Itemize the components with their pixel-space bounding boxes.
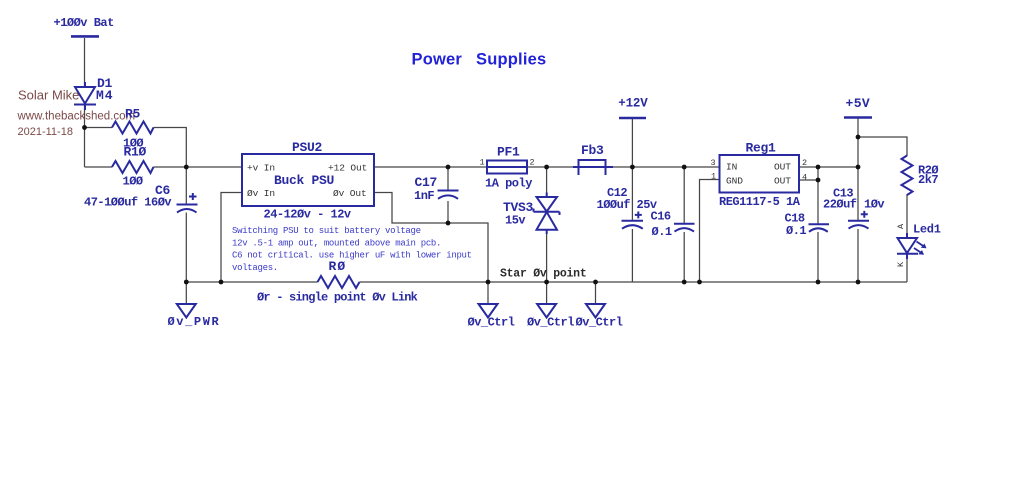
node junction C18 top	[816, 165, 821, 170]
resistor R20	[902, 156, 913, 196]
svg-text:Buck PSU: Buck PSU	[274, 173, 334, 188]
led Led1 arrows	[914, 242, 926, 255]
wire R5 left lead	[85, 127, 113, 129]
diode D1	[74, 82, 96, 110]
wire R10 right lead	[154, 166, 187, 168]
wire D1 to node A	[84, 104, 86, 167]
wire Led1 to 0v rail	[906, 254, 908, 282]
svg-text:+5V: +5V	[846, 96, 871, 111]
svg-text:Switching PSU to suit battery: Switching PSU to suit battery voltage	[232, 226, 421, 236]
capacitor C16	[674, 224, 695, 232]
svg-text:Ø.1: Ø.1	[652, 225, 672, 239]
svg-text:1ØØuf: 1ØØuf	[597, 198, 631, 212]
svg-text:Øv_Ctrl: Øv_Ctrl	[468, 316, 515, 330]
capacitor C6	[177, 193, 198, 213]
capacitor C12	[622, 212, 644, 229]
svg-text:Solar Mike: Solar Mike	[18, 88, 79, 103]
svg-text:1: 1	[480, 158, 485, 168]
svg-text:+12 Out: +12 Out	[328, 163, 367, 174]
svg-text:C17: C17	[415, 175, 438, 190]
resistor R10	[112, 161, 154, 173]
svg-text:Star Øv point: Star Øv point	[500, 268, 586, 281]
wire C17 bottom	[447, 201, 449, 223]
svg-text:K: K	[896, 261, 906, 267]
svg-text:A: A	[896, 223, 906, 229]
resistor R0	[318, 276, 360, 288]
svg-text:+1ØØv Bat: +1ØØv Bat	[54, 16, 115, 30]
node junction C17 bottom	[446, 221, 451, 226]
node junction 0vIn/0v rail	[219, 280, 224, 285]
psu box PSU2	[242, 154, 374, 206]
wire PSU +12 Out to PF1	[374, 166, 487, 168]
svg-text:OUT: OUT	[774, 162, 791, 173]
capacitor C17	[438, 191, 459, 199]
wire Reg1 OUT pin4	[799, 179, 818, 181]
svg-text:22Øuf: 22Øuf	[823, 197, 857, 211]
node junction R5/D1	[82, 125, 87, 130]
svg-text:+12V: +12V	[618, 97, 648, 111]
wire C16 bottom	[683, 232, 685, 282]
svg-text:Fb3: Fb3	[581, 143, 604, 158]
svg-text:3: 3	[711, 158, 716, 168]
wire C17 top	[447, 167, 449, 190]
svg-text:C6 not critical. use higher uF: C6 not critical. use higher uF with lowe…	[232, 251, 472, 261]
node junction R10/C6	[184, 165, 189, 170]
svg-text:1ØØ: 1ØØ	[123, 175, 143, 189]
wire Reg1 OUT pin2	[799, 166, 858, 168]
wire PSU 0v Out down	[374, 193, 488, 283]
svg-text:voltages.: voltages.	[232, 263, 278, 273]
ground 0v_PWR	[177, 304, 196, 318]
wire +5V branch to R20	[858, 137, 907, 156]
wire +12V to rail	[631, 119, 633, 167]
ferrite bead Fb3	[573, 160, 613, 175]
wire PSU 0v In down to 0v rail	[221, 193, 242, 283]
svg-text:4: 4	[802, 173, 807, 183]
wire C12 column	[631, 167, 633, 221]
svg-text:Øv Out: Øv Out	[333, 188, 367, 199]
svg-text:24-12Øv - 12v: 24-12Øv - 12v	[264, 207, 351, 221]
tvs diode TVS3	[534, 193, 560, 235]
node junction C6/0v rail	[184, 280, 189, 285]
ground 0v_Ctrl 3	[586, 304, 605, 318]
svg-text:R1Ø: R1Ø	[124, 145, 147, 160]
fuse PF1	[487, 161, 527, 174]
node junction C16 top	[682, 165, 687, 170]
capacitor C13	[848, 211, 869, 229]
wire C13 bottom	[857, 229, 859, 282]
wire node to PSU +v In	[186, 166, 242, 168]
svg-text:Øv_Ctrl: Øv_Ctrl	[527, 316, 574, 330]
wire 0v_Ctrl stub 1	[487, 282, 489, 304]
svg-text:PSU2: PSU2	[292, 140, 323, 155]
svg-text:REG1117-5 1A: REG1117-5 1A	[719, 195, 801, 209]
wire C18 bottom	[817, 232, 819, 282]
svg-text:PowerSupplies: PowerSupplies	[412, 51, 547, 69]
svg-text:1: 1	[711, 171, 716, 181]
wire +5V column	[857, 118, 859, 220]
wire C16 column	[683, 167, 685, 224]
ground 0v_Ctrl 2	[537, 304, 556, 318]
svg-text:Reg1: Reg1	[746, 140, 777, 155]
svg-text:1nF: 1nF	[414, 189, 434, 203]
wire C18 column	[817, 167, 819, 224]
node junction C18 bottom	[816, 280, 821, 285]
power symbol +5V	[844, 116, 872, 119]
node junction +12V rail	[630, 165, 635, 170]
svg-text:Øv_PWR: Øv_PWR	[168, 315, 221, 329]
wire PF1 to Fb3 to Reg1 IN	[527, 166, 720, 168]
regulator box Reg1	[720, 155, 800, 193]
svg-text:2: 2	[530, 158, 535, 168]
wire battery to D1	[84, 38, 86, 87]
svg-text:Øv In: Øv In	[247, 188, 275, 199]
node junction +5V branch	[856, 135, 861, 140]
led Led1	[897, 233, 918, 259]
svg-text:Led1: Led1	[913, 223, 941, 237]
svg-text:1A poly: 1A poly	[485, 176, 532, 190]
svg-text:M4: M4	[96, 88, 113, 103]
wire TVS3 top	[546, 167, 548, 196]
svg-text:2k7: 2k7	[918, 173, 938, 187]
power symbol +12V	[619, 117, 646, 120]
svg-text:47-1ØØuf 16Øv: 47-1ØØuf 16Øv	[84, 195, 171, 209]
svg-text:1Øv: 1Øv	[864, 197, 884, 211]
svg-text:Ør - single point Øv Link: Ør - single point Øv Link	[257, 291, 418, 305]
node junction Reg1 GND rail	[697, 280, 702, 285]
wire TVS3 bottom	[546, 231, 548, 283]
node junction C13 top	[856, 165, 861, 170]
wire 0v bottom rail right	[360, 281, 908, 283]
svg-text:2021-11-18: 2021-11-18	[18, 126, 73, 138]
svg-text:C16: C16	[651, 209, 671, 223]
wire R20 to Led1	[906, 194, 908, 238]
node junction C16 bottom	[682, 280, 687, 285]
svg-text:IN: IN	[726, 162, 737, 173]
svg-text:12v .5-1 amp out, mounted abov: 12v .5-1 amp out, mounted above main pcb…	[232, 238, 441, 248]
fuse PF1 middle line	[487, 166, 527, 168]
wire C6 bottom to 0v rail	[185, 213, 187, 283]
svg-text:15v: 15v	[505, 214, 525, 228]
node junction star point 3	[593, 280, 598, 285]
node junction C17 top	[446, 165, 451, 170]
wire 0v_Ctrl stub 3	[595, 282, 597, 304]
svg-text:PF1: PF1	[497, 145, 520, 160]
wire 0v_PWR stub	[185, 282, 187, 304]
wire 0v bottom rail left	[186, 281, 317, 283]
svg-text:OUT: OUT	[774, 176, 791, 187]
wire 0v_Ctrl stub 2	[546, 282, 548, 304]
node junction C13 bottom	[856, 280, 861, 285]
node junction star point 1	[486, 280, 491, 285]
wire R5 right lead to C6 column	[154, 128, 187, 205]
ground 0v_Ctrl 1	[479, 304, 498, 318]
wire R10 left lead	[85, 166, 113, 168]
svg-text:RØ: RØ	[329, 259, 347, 274]
power symbol +100v Bat	[71, 35, 99, 38]
node junction TVS3 top	[544, 165, 549, 170]
svg-text:Ø.1: Ø.1	[786, 224, 806, 238]
capacitor C18	[809, 224, 830, 232]
svg-text:Øv_Ctrl: Øv_Ctrl	[576, 316, 623, 330]
node junction TVS3 bottom	[544, 280, 549, 285]
svg-text:GND: GND	[726, 176, 743, 187]
svg-text:+v In: +v In	[247, 163, 275, 174]
svg-text:R5: R5	[125, 107, 141, 122]
wire C12 bottom	[631, 229, 633, 282]
wire Reg1 GND down	[700, 180, 720, 283]
node junction pin4	[816, 178, 821, 183]
svg-text:2: 2	[802, 158, 807, 168]
resistor R5	[112, 122, 154, 134]
svg-text:www.thebackshed.com: www.thebackshed.com	[17, 111, 136, 123]
